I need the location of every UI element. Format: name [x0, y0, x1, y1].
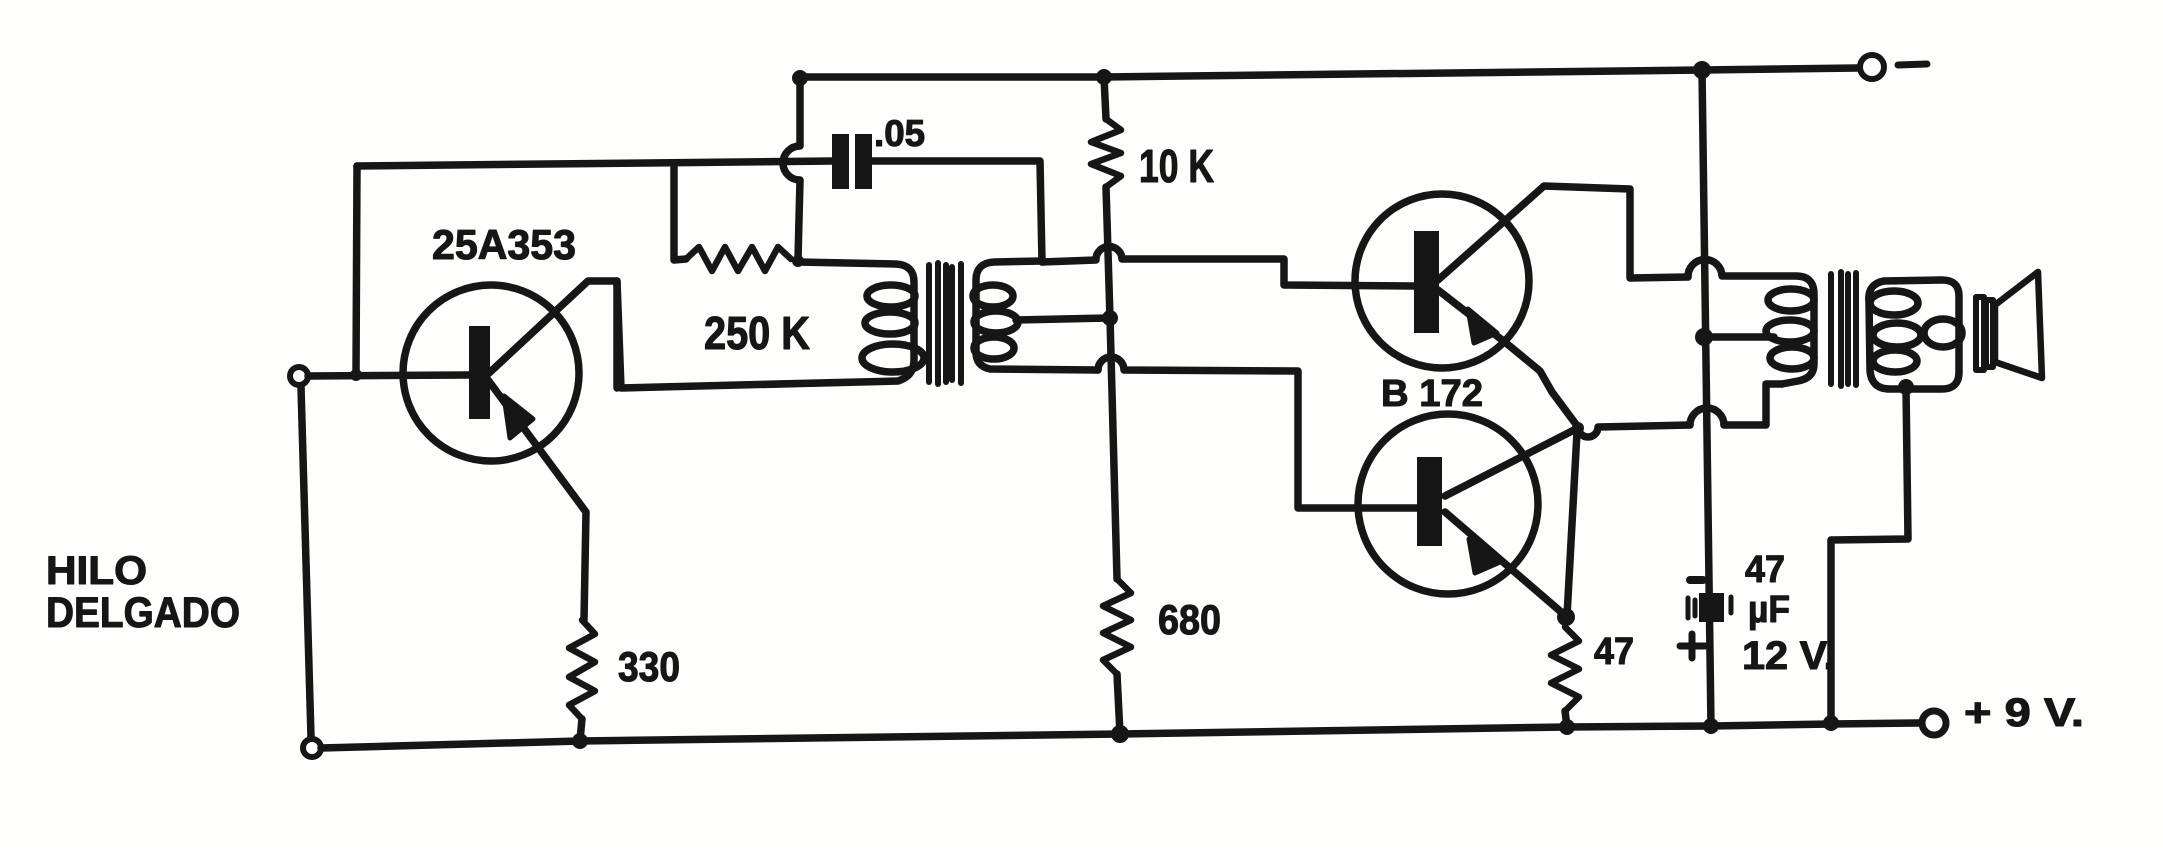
capacitor C1 .05 left plate: [832, 134, 849, 189]
wire input vertical between terminals: [301, 387, 311, 737]
node dot output primary centre tap: [1695, 328, 1713, 346]
node dot top rail left corner: [792, 70, 808, 86]
transistor Q3 emitter diagonal: [1445, 512, 1566, 617]
capacitor C2 47uF electrolytic body: [1699, 593, 1724, 622]
transformer T2 secondary loop 4 right: [1924, 319, 1962, 347]
svg-text:250 K: 250 K: [704, 307, 810, 359]
node dot rail at 330: [572, 733, 588, 749]
transformer T2 secondary loop 2: [1873, 323, 1921, 347]
svg-text:12 V.: 12 V.: [1742, 634, 1835, 678]
transformer T2 secondary loop 1: [1870, 291, 1918, 315]
top supply rail (negative): [800, 68, 1858, 77]
transformer T2 primary loop 2: [1766, 320, 1814, 342]
resistor R5 47: [1551, 627, 1579, 711]
label minus at C2: [1690, 576, 1703, 584]
wire 47 ohm to bottom rail: [1565, 711, 1567, 727]
transistor Q3 emitter arrow: [1469, 539, 1498, 573]
capacitor C1 .05 right plate: [855, 134, 872, 189]
svg-text:B 172: B 172: [1381, 373, 1483, 415]
svg-text:47: 47: [1594, 631, 1634, 673]
wire vertical input node up: [356, 166, 357, 375]
transistor Q2 B172 upper circle: [1355, 194, 1529, 368]
transistor Q3 base bar: [1417, 457, 1442, 546]
node dot 47 ohm top: [1557, 608, 1575, 626]
svg-text:47: 47: [1745, 549, 1785, 591]
transformer T2 primary top lead and spine: [1724, 276, 1814, 384]
bottom supply rail (+9V): [321, 723, 1919, 748]
transistor Q2 collector diagonal: [1438, 186, 1688, 280]
transformer T2 core bars: [1828, 274, 1834, 384]
wire 250K left vertical from top wire: [674, 167, 686, 260]
wire junction small dip then right to hop: [1578, 425, 1690, 437]
svg-text:.05: .05: [874, 113, 925, 154]
svg-text:DELGADO: DELGADO: [46, 589, 240, 637]
resistor R3 10K: [1091, 119, 1121, 187]
svg-text:25A353: 25A353: [432, 221, 576, 268]
node junction emitters and output primary: [1572, 422, 1584, 434]
wire cap right plate to down corner: [871, 161, 1042, 262]
wire top-left horizontal to cap: [357, 161, 833, 166]
wire 680 to bottom rail: [1117, 674, 1120, 734]
wire hop to output transformer primary bottom: [1724, 384, 1782, 425]
transistor Q3 collector diagonal: [1445, 429, 1576, 496]
transistor Q2 base bar: [1414, 231, 1439, 333]
transformer T1 secondary spine and top lead: [976, 261, 1098, 370]
node dot rail at speaker return: [1823, 715, 1839, 731]
svg-text:µF: µF: [1748, 589, 1790, 631]
transformer T1 secondary loop 3: [974, 337, 1014, 359]
capacitor C2 right tick: [1729, 597, 1734, 613]
input terminal circle bottom: [303, 739, 321, 757]
input terminal circle top: [290, 367, 308, 385]
node dot 250K right corner: [792, 255, 804, 267]
transformer T1 primary top lead: [617, 262, 914, 388]
wire R1 to bottom rail: [580, 719, 582, 740]
transistor Q2 emitter arrow: [1468, 309, 1497, 343]
resistor R2 250K horizontal: [686, 247, 791, 271]
node dot top rail at output vertical: [1693, 61, 1711, 79]
transformer T1 secondary centre tap wire: [1016, 318, 1108, 320]
transistor Q2 emitter diagonal: [1438, 290, 1578, 427]
svg-text:10 K: 10 K: [1139, 140, 1214, 192]
transistor Q1 emitter arrow: [504, 396, 533, 438]
transformer T2 primary loop 3: [1770, 347, 1814, 369]
wire centre tap to output transformer: [1704, 333, 1774, 341]
svg-text:+ 9 V.: + 9 V.: [1964, 691, 2084, 735]
svg-text:HILO: HILO: [46, 549, 147, 593]
transistor Q1 emitter diagonal: [488, 380, 586, 620]
wire T1 secondary bottom to Q3 base with hop over 10K line: [1098, 357, 1417, 508]
transistor Q1 25A353 circle: [403, 285, 579, 461]
transistor Q2 collector hop over output vertical: [1688, 260, 1722, 277]
terminal circle +9V: [1922, 711, 1946, 735]
node dot centre tap on 10K line: [1102, 310, 1118, 326]
wire T2 secondary down-step to bottom rail: [1831, 387, 1908, 723]
transistor Q3 B172 lower circle: [1358, 414, 1538, 594]
speaker LS1 driver bars: [1976, 297, 1984, 370]
speaker LS1 cone: [1995, 272, 2042, 378]
node dot T2 secondary bottom: [1898, 379, 1914, 395]
transformer T1 primary loop 1: [867, 285, 915, 307]
wire junction down to 47 ohm: [1567, 432, 1577, 616]
wire cap node to Q2 base with hop over 10K line: [1042, 247, 1414, 286]
transformer T1 core bars: [926, 265, 932, 382]
transformer T1 primary loop 3: [862, 344, 924, 372]
transformer T1 secondary loop 2: [974, 311, 1018, 333]
transformer T1 primary loop 2: [865, 312, 915, 334]
resistor R4 680: [1103, 579, 1131, 674]
label - dash at negative terminal: [1898, 64, 1927, 65]
transformer T2 secondary loop 3: [1873, 350, 1917, 372]
svg-text:330: 330: [618, 643, 680, 690]
node input T junction: [350, 369, 362, 381]
transformer T2 primary loop 1: [1768, 289, 1814, 311]
node dot rail at 47: [1559, 719, 1575, 735]
transformer T1 secondary loop 1: [973, 285, 1013, 307]
transistor Q1 collector diagonal: [488, 281, 617, 388]
node dot rail at 680: [1111, 725, 1129, 743]
svg-text:680: 680: [1158, 596, 1221, 643]
transistor Q1 base bar: [469, 326, 490, 419]
wire 10K bottom down to 680: [1106, 187, 1117, 579]
resistor R1 330: [569, 620, 595, 719]
transformer T2 secondary outline: [1869, 280, 1959, 389]
label plus at C2: [1680, 643, 1705, 650]
node dot top rail at 10K: [1096, 69, 1112, 85]
capacitor C2 left ticks: [1686, 598, 1691, 618]
wire emitter junction hop over output vertical: [1690, 408, 1724, 425]
wire 10K top to rail: [1104, 77, 1106, 119]
wire vertical cap node: top rail down to 250K right, with hop over horizontal: [783, 78, 800, 259]
wire output vertical from top rail to bottom rail: [1702, 70, 1711, 726]
terminal circle negative: [1860, 55, 1884, 79]
node dot rail at output vertical: [1703, 718, 1719, 734]
wire input to Q1 base: [308, 375, 469, 376]
